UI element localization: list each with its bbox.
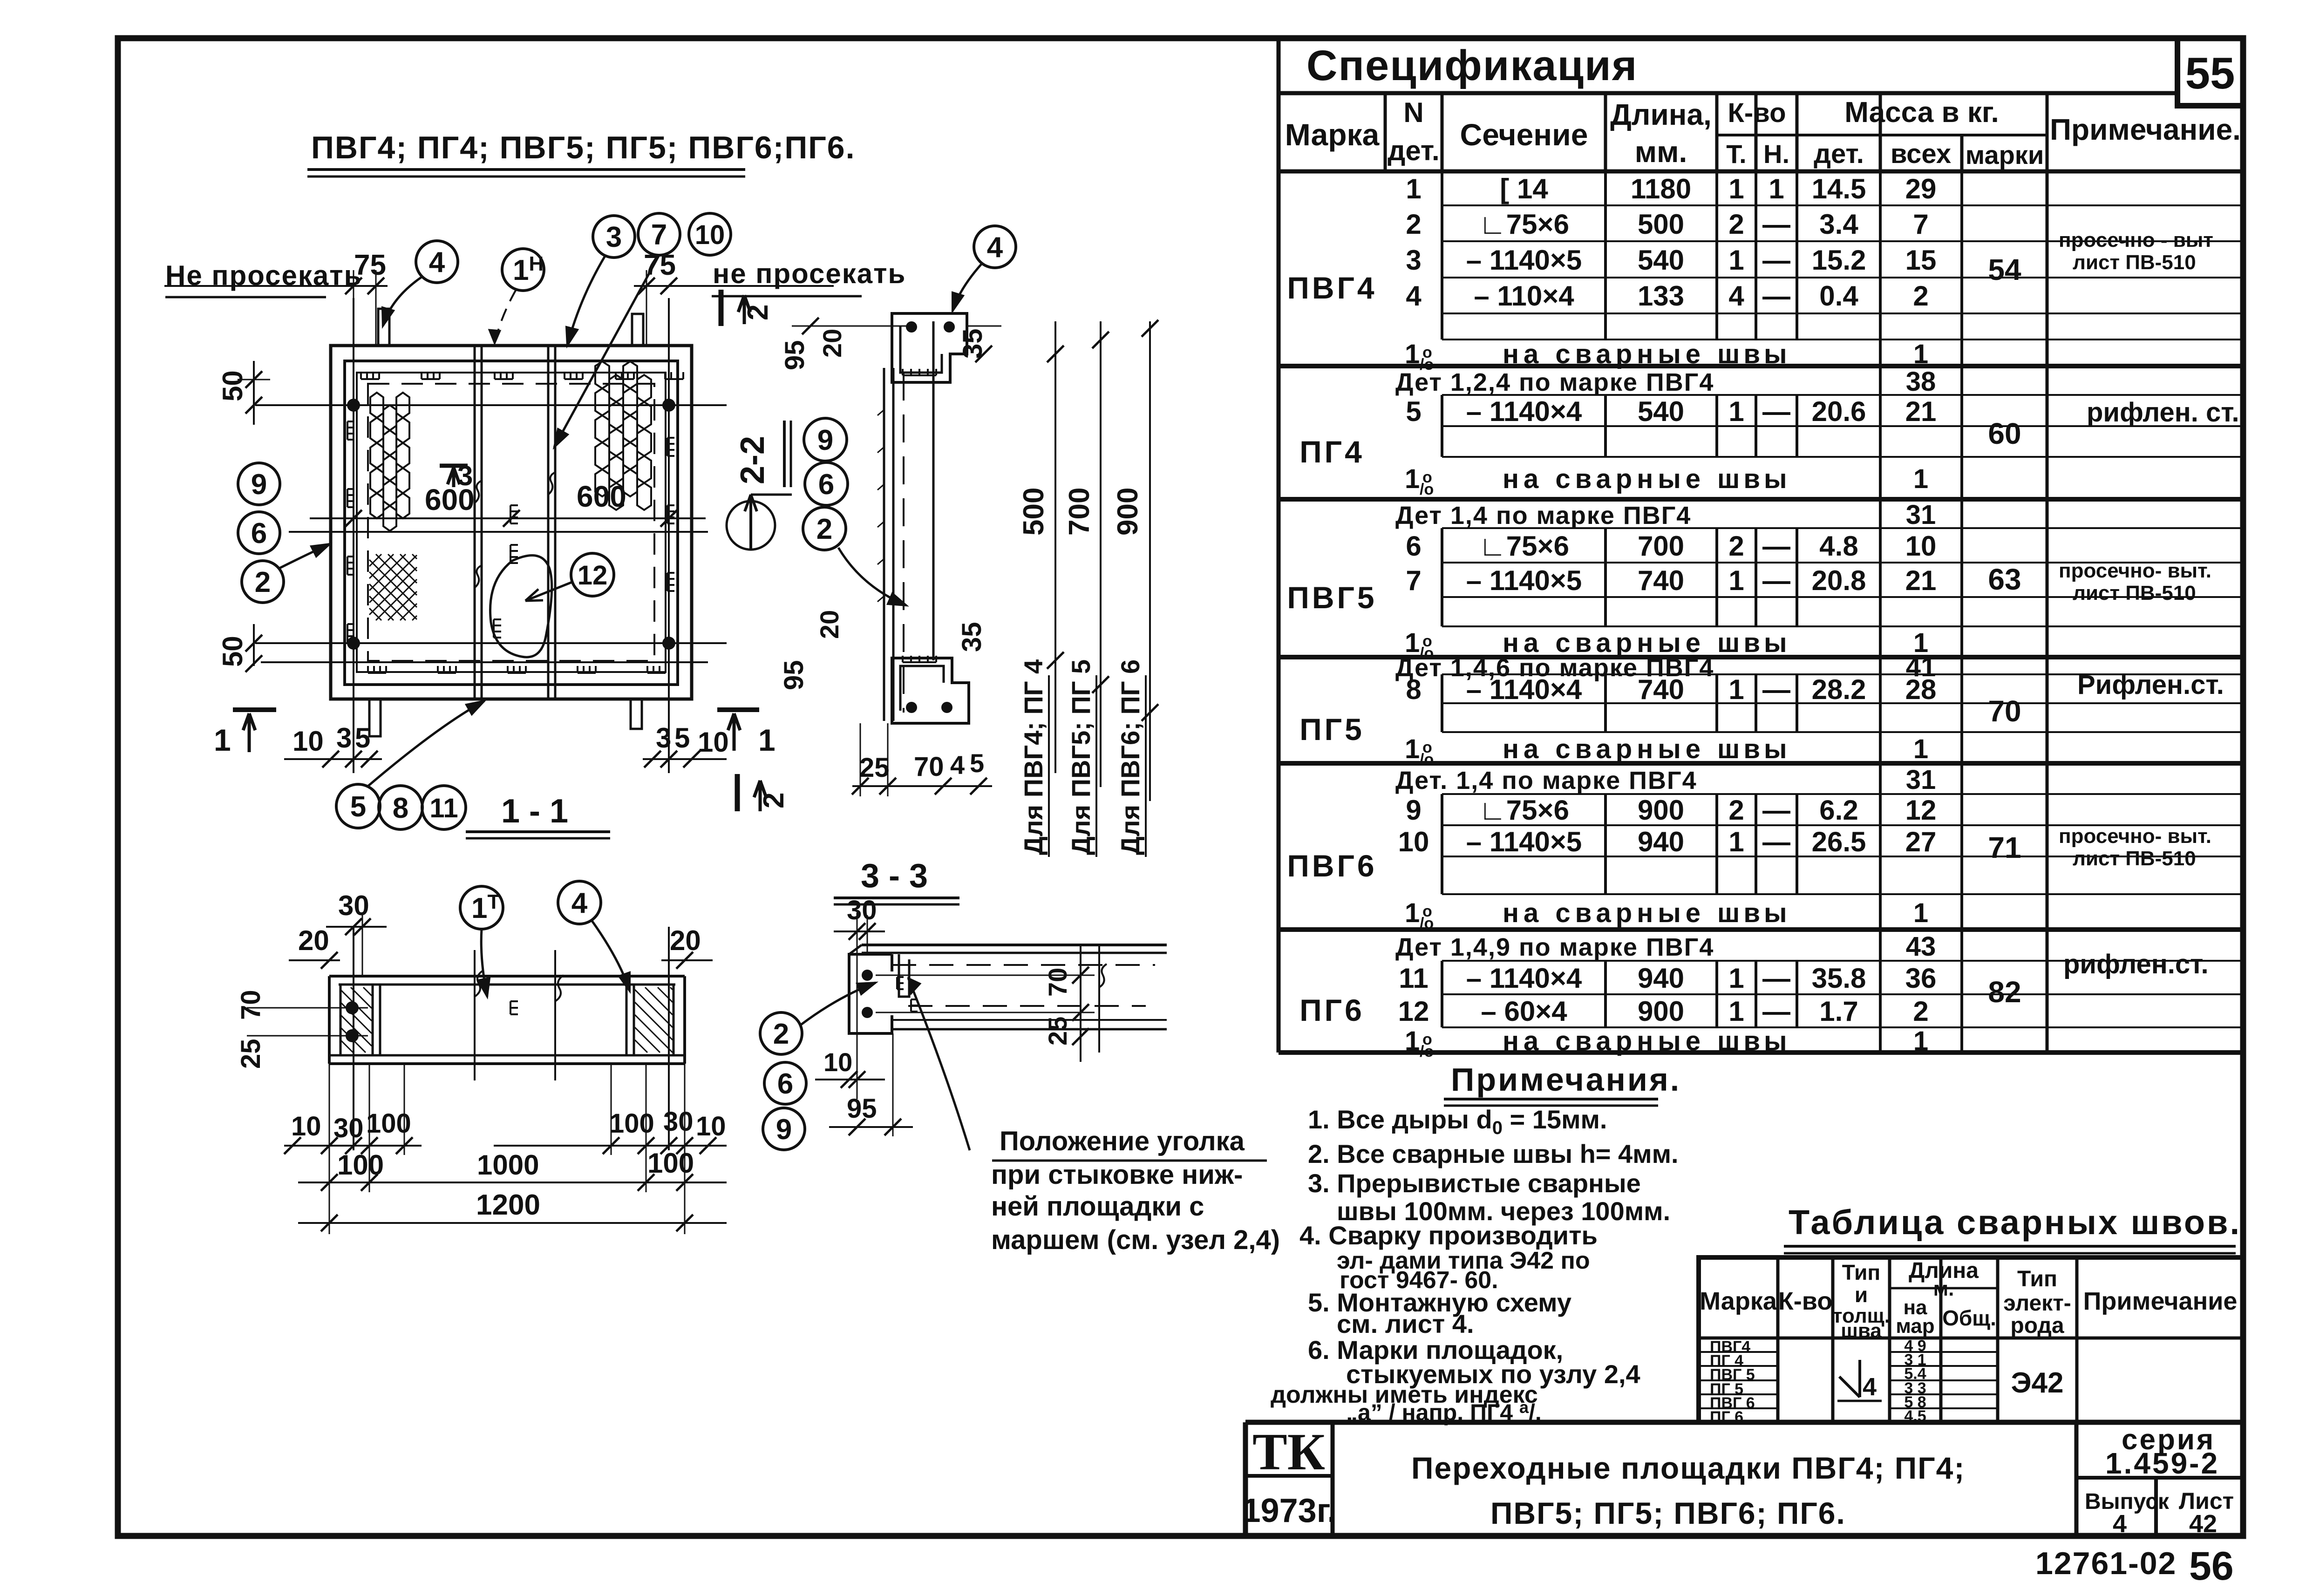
svg-text:82: 82 <box>1988 975 2021 1009</box>
svg-text:3: 3 <box>606 221 622 253</box>
svg-text:К-во: К-во <box>1728 98 1786 128</box>
svg-text:36: 36 <box>1905 963 1937 994</box>
plan gridline horizontal B <box>255 642 727 644</box>
svg-text:– 1140×5: – 1140×5 <box>1466 826 1582 857</box>
svg-text:20.6: 20.6 <box>1812 396 1866 427</box>
svg-text:2: 2 <box>1913 280 1928 312</box>
svg-text:2: 2 <box>742 305 774 320</box>
svg-text:5: 5 <box>355 722 370 754</box>
svg-text:26.5: 26.5 <box>1812 826 1866 857</box>
svg-text:ПВГ5; ПГ5; ПВГ6; ПГ6.: ПВГ5; ПГ5; ПВГ6; ПГ6. <box>1490 1496 1846 1530</box>
svg-text:50: 50 <box>217 370 248 401</box>
svg-text:Дет. 1,4 по марке ПВГ4: Дет. 1,4 по марке ПВГ4 <box>1395 767 1697 795</box>
plan break marks on stringers <box>475 481 482 503</box>
svg-text:– 1140×4: – 1140×4 <box>1466 674 1582 705</box>
svg-text:Э42: Э42 <box>2011 1367 2063 1399</box>
plan stringer 1 (double line) <box>474 346 476 699</box>
svg-text:—: — <box>1762 826 1790 857</box>
svg-text:11: 11 <box>1399 963 1428 994</box>
svg-text:Для ПВГ4; ПГ 4: Для ПВГ4; ПГ 4 <box>1019 659 1048 855</box>
svg-text:30: 30 <box>333 1113 364 1143</box>
svg-text:Переходные площадки ПВГ: Переходные площадки ПВГ4; ПГ4; <box>1411 1451 1965 1485</box>
svg-text:– 1140×4: – 1140×4 <box>1466 396 1582 427</box>
svg-text:Выпуск: Выпуск <box>2085 1489 2170 1514</box>
svg-text:900: 900 <box>1638 795 1684 826</box>
svg-text:4: 4 <box>950 750 965 780</box>
plan bottom tabs <box>369 699 381 736</box>
svg-text:1180: 1180 <box>1631 173 1691 204</box>
svg-text:1. Все дыры d0 = 1: 1. Все дыры d0 = 15мм. <box>1308 1105 1607 1138</box>
svg-text:7: 7 <box>1913 209 1928 240</box>
svg-text:30: 30 <box>338 890 369 921</box>
spec ПВГ4 прим column ruling <box>2047 205 2243 206</box>
section 3-3 callout circles 2 6 9 <box>760 1012 802 1054</box>
spec table ПГ5 block <box>1442 673 2243 675</box>
svg-text:/о: /о <box>1420 751 1434 768</box>
leader from position note to 3-3 <box>908 978 970 1150</box>
svg-text:—: — <box>1762 963 1790 994</box>
svg-text:лист ПВ-510: лист ПВ-510 <box>2073 251 2196 274</box>
leader from 3-7-10 to middle <box>554 255 659 447</box>
section 3-3 dims 70 25 <box>1080 945 1082 1062</box>
svg-text:Тип: Тип <box>1842 1260 1880 1284</box>
svg-text:– 60×4: – 60×4 <box>1481 996 1567 1027</box>
spec table ПВГ6 block <box>1442 793 2243 795</box>
hex mesh patch right <box>595 361 651 510</box>
svg-text:ТК: ТК <box>1252 1423 1325 1481</box>
svg-text:дет.: дет. <box>1388 135 1439 166</box>
weld table grid <box>1699 1257 2243 1422</box>
svg-text:Дет 1,4 по марке ПВГ4: Дет 1,4 по марке ПВГ4 <box>1395 502 1691 530</box>
svg-text:2: 2 <box>1728 795 1744 826</box>
svg-text:740: 740 <box>1638 674 1684 705</box>
svg-text:1: 1 <box>1728 963 1744 994</box>
secondary horizontal line below 600 <box>289 531 708 533</box>
svg-text:500: 500 <box>1638 209 1684 240</box>
svg-text:940: 940 <box>1638 963 1684 994</box>
svg-text:133: 133 <box>1638 280 1684 312</box>
svg-text:43: 43 <box>1906 931 1936 962</box>
svg-text:70: 70 <box>1043 968 1072 997</box>
svg-text:—: — <box>1762 280 1790 312</box>
dimension 75 left top <box>164 285 388 287</box>
svg-text:∟75×6: ∟75×6 <box>1479 795 1569 826</box>
section 1-1 callout 1T <box>460 886 503 929</box>
svg-text:3: 3 <box>1406 244 1421 276</box>
svg-text:Масса в кг.: Масса в кг. <box>1844 96 1999 129</box>
svg-text:2: 2 <box>758 793 790 808</box>
svg-text:27: 27 <box>1905 826 1937 857</box>
svg-text:ПВГ4; ПГ4; ПВГ5; ПГ5; ПВГ6;ПГ: ПВГ4; ПГ4; ПВГ5; ПГ5; ПВГ6;ПГ6. <box>311 130 855 165</box>
plan lower extension line <box>261 661 708 663</box>
section 1-1 comb middle <box>510 1001 511 1014</box>
svg-text:4: 4 <box>1863 1373 1877 1401</box>
svg-text:25: 25 <box>236 1039 266 1069</box>
svg-text:Марка: Марка <box>1700 1287 1777 1315</box>
svg-text:12761-02: 12761-02 <box>2035 1546 2177 1581</box>
svg-text:2-2: 2-2 <box>734 436 771 484</box>
svg-text:1: 1 <box>758 723 775 757</box>
section 2-2 web weld ticks <box>878 410 884 415</box>
svg-text:540: 540 <box>1638 396 1684 427</box>
svg-text:ПГ4: ПГ4 <box>1299 435 1365 469</box>
svg-text:1: 1 <box>1406 173 1421 204</box>
svg-text:Для ПВГ5; ПГ 5: Для ПВГ5; ПГ 5 <box>1066 659 1095 855</box>
svg-text:700: 700 <box>1638 530 1684 562</box>
title block frame <box>1245 1420 2243 1425</box>
svg-text:1: 1 <box>1913 734 1928 764</box>
svg-text:25: 25 <box>1043 1017 1072 1046</box>
svg-text:1.7: 1.7 <box>1819 996 1858 1027</box>
svg-text:1: 1 <box>1728 244 1744 276</box>
section cut marker 2 top <box>719 290 724 326</box>
section 3-3 combs <box>896 977 898 989</box>
svg-text:—: — <box>1762 795 1790 826</box>
section 1-1 end plates <box>328 976 331 1064</box>
spec table header band <box>1279 170 2243 174</box>
svg-text:4: 4 <box>987 231 1003 264</box>
svg-text:1: 1 <box>214 723 231 757</box>
svg-text:лист ПВ-510: лист ПВ-510 <box>2073 847 2196 870</box>
svg-text:1000: 1000 <box>477 1149 539 1181</box>
svg-text:10: 10 <box>696 1111 726 1141</box>
section 3-3 dashed flange lines <box>892 964 1155 966</box>
svg-text:6: 6 <box>251 517 267 550</box>
section cut marker 2 bottom-right <box>735 774 740 811</box>
svg-text:1: 1 <box>1405 898 1420 928</box>
svg-text:35.8: 35.8 <box>1812 963 1866 994</box>
svg-text:10: 10 <box>1905 530 1937 562</box>
callout circles 5 8 11 <box>336 784 380 828</box>
section 2-2 top channel <box>892 313 967 382</box>
svg-text:ней площадки с: ней площадки с <box>991 1191 1204 1222</box>
svg-text:10: 10 <box>291 1111 321 1141</box>
svg-text:1973г.: 1973г. <box>1242 1492 1337 1529</box>
svg-text:Дет 1,2,4 по марке ПВГ4: Дет 1,2,4 по марке ПВГ4 <box>1395 368 1714 396</box>
svg-text:N: N <box>1403 97 1423 128</box>
svg-text:– 1140×5: – 1140×5 <box>1466 244 1582 276</box>
svg-text:Положение уголка: Положение уголка <box>1000 1126 1245 1156</box>
svg-text:Н.: Н. <box>1763 139 1789 169</box>
svg-text:∟75×6: ∟75×6 <box>1479 530 1569 562</box>
svg-text:10: 10 <box>293 726 324 757</box>
svg-text:лист ПВ-510: лист ПВ-510 <box>2073 582 2196 604</box>
svg-text:ПВГ6: ПВГ6 <box>1287 849 1377 883</box>
svg-text:ПГ6: ПГ6 <box>1299 993 1365 1027</box>
svg-text:[ 14: [ 14 <box>1500 173 1548 204</box>
svg-text:Марка: Марка <box>1285 117 1380 152</box>
svg-text:31: 31 <box>1906 500 1936 530</box>
svg-text:3: 3 <box>336 722 352 754</box>
svg-text:и: и <box>1855 1283 1868 1307</box>
svg-text:Для ПВГ6; ПГ 6: Для ПВГ6; ПГ 6 <box>1116 659 1145 855</box>
svg-text:20: 20 <box>298 925 329 956</box>
svg-text:8: 8 <box>393 792 408 824</box>
series cell <box>2075 1422 2079 1536</box>
svg-text:Длина,: Длина, <box>1610 98 1712 131</box>
svg-text:4.8: 4.8 <box>1819 530 1858 562</box>
section 3-3 top plate <box>862 944 1167 946</box>
spec table ПГ6 block <box>1442 960 2243 962</box>
plan stringer 2 (double line) <box>547 346 550 699</box>
svg-text:6.2: 6.2 <box>1819 795 1858 826</box>
svg-text:Примечание: Примечание <box>2083 1287 2238 1315</box>
weld combs right edge <box>667 438 668 456</box>
svg-text:Сечение: Сечение <box>1460 117 1588 152</box>
svg-text:1: 1 <box>1405 464 1420 494</box>
svg-text:просечно- выт.: просечно- выт. <box>2059 825 2211 848</box>
svg-text:Тип: Тип <box>2017 1267 2057 1291</box>
svg-text:940: 940 <box>1638 826 1684 857</box>
svg-text:5: 5 <box>674 722 690 754</box>
svg-text:15.2: 15.2 <box>1812 244 1866 276</box>
svg-text:95: 95 <box>847 1093 877 1124</box>
section 2-2 web vertical <box>883 368 885 721</box>
weld table data rows <box>1699 1351 1778 1353</box>
section marker 1 bottom-left <box>233 707 276 712</box>
svg-text:2: 2 <box>816 513 832 545</box>
callout circles 3 7 10 <box>593 216 635 258</box>
svg-text:20: 20 <box>815 610 844 639</box>
svg-text:4: 4 <box>1728 280 1744 312</box>
svg-text:31: 31 <box>1906 765 1936 795</box>
section 3-3 lower member <box>892 1019 1167 1021</box>
spec table ПВГ5 block <box>1442 527 2243 529</box>
svg-text:3.4: 3.4 <box>1819 209 1858 240</box>
svg-text:элект-: элект- <box>2003 1291 2071 1316</box>
svg-text:швы: швы <box>1717 628 1791 658</box>
section marker 1 bottom-right <box>733 713 736 751</box>
svg-text:3: 3 <box>457 460 473 491</box>
svg-text:9: 9 <box>251 469 267 501</box>
section 1-1 bottom flange <box>329 1054 685 1057</box>
spec table ПГ4 block <box>1442 394 2243 396</box>
svg-text:10: 10 <box>1398 826 1429 857</box>
svg-text:900: 900 <box>1112 488 1144 536</box>
svg-text:5: 5 <box>970 748 984 778</box>
svg-text:70: 70 <box>1988 694 2021 728</box>
svg-text:швы: швы <box>1717 734 1791 764</box>
svg-text:600: 600 <box>577 480 626 513</box>
svg-text:дет.: дет. <box>1814 139 1864 169</box>
svg-text:—: — <box>1762 674 1790 705</box>
svg-text:12: 12 <box>1398 996 1429 1027</box>
callout circle 4 top-left <box>416 241 458 283</box>
svg-text:55: 55 <box>2185 48 2235 98</box>
svg-text:Примечание.: Примечание. <box>2050 113 2241 146</box>
svg-text:2: 2 <box>1406 209 1421 240</box>
TK logo box <box>1245 1474 1333 1478</box>
svg-text:1: 1 <box>1913 464 1928 494</box>
weld combs bottom edge <box>368 672 386 674</box>
svg-text:2: 2 <box>1728 209 1744 240</box>
spec table title row <box>1277 38 1281 1053</box>
svg-text:11: 11 <box>429 793 458 823</box>
svg-text:швы: швы <box>1717 898 1791 928</box>
svg-text:К-во: К-во <box>1778 1287 1832 1315</box>
svg-text:Таблица сварных швов.: Таблица сварных швов. <box>1789 1203 2241 1242</box>
svg-text:4: 4 <box>429 246 445 278</box>
section 2-2 view direction symbol <box>727 501 775 550</box>
weld combs middle stringer <box>510 505 511 523</box>
cross hatch patch <box>369 554 417 620</box>
svg-text:—: — <box>1762 996 1790 1027</box>
svg-text:500: 500 <box>1018 488 1050 536</box>
svg-text:м.: м. <box>1933 1277 1954 1300</box>
svg-text:не просекать: не просекать <box>713 258 906 289</box>
svg-text:Спецификация: Спецификация <box>1306 42 1638 89</box>
svg-text:30: 30 <box>663 1107 694 1137</box>
svg-text:3 - 3: 3 - 3 <box>861 857 928 895</box>
spec table ПВГ4 block <box>1441 171 1443 340</box>
svg-text:—: — <box>1762 244 1790 276</box>
svg-text:маршем (см. узел 2,4): маршем (см. узел 2,4) <box>991 1225 1280 1255</box>
svg-text:—: — <box>1762 396 1790 427</box>
svg-text:Примечания.: Примечания. <box>1451 1061 1681 1098</box>
svg-text:95: 95 <box>779 660 809 690</box>
svg-text:9: 9 <box>817 424 833 456</box>
svg-text:2: 2 <box>773 1018 789 1050</box>
svg-text:2: 2 <box>1913 996 1928 1027</box>
svg-text:6: 6 <box>1406 530 1421 562</box>
svg-text:– 1140×5: – 1140×5 <box>1466 565 1582 596</box>
plan bolt dots <box>347 399 360 412</box>
section 1-1 callout 4 <box>558 881 601 924</box>
svg-text:4: 4 <box>1406 280 1422 312</box>
svg-text:на сварные: на сварные <box>1503 464 1705 494</box>
svg-text:71: 71 <box>1988 831 2021 864</box>
svg-text:всех: всех <box>1891 139 1951 169</box>
svg-text:Т.: Т. <box>1726 139 1746 169</box>
svg-text:50: 50 <box>217 636 248 667</box>
sheet number box 55 <box>2177 38 2243 106</box>
svg-text:рифлен. ст.: рифлен. ст. <box>2087 397 2239 428</box>
svg-text:100: 100 <box>647 1148 694 1179</box>
svg-text:на сварные: на сварные <box>1503 734 1705 764</box>
section 1-1 bottom dim row 3 1200 <box>298 1222 727 1224</box>
section 1-1 gridlines <box>353 927 354 1150</box>
section 3-3 left channel box <box>849 954 892 1033</box>
plan top tabs (detail 4) <box>378 309 389 346</box>
svg-text:3. Прерывистые сварные: 3. Прерывистые сварные <box>1308 1168 1641 1198</box>
svg-text:25: 25 <box>859 753 890 783</box>
section 1-1 bottom dim row 2 <box>298 1182 727 1183</box>
svg-text:6: 6 <box>818 469 834 501</box>
svg-text:0.4: 0.4 <box>1819 280 1858 312</box>
section 1-1 stiffeners <box>372 985 374 1055</box>
section 1-1 extension verticals <box>329 1064 330 1234</box>
svg-text:20.8: 20.8 <box>1812 565 1866 596</box>
svg-text:20: 20 <box>817 329 847 358</box>
svg-text:63: 63 <box>1988 563 2021 596</box>
callout circle 12 with blob <box>571 553 614 596</box>
svg-text:95: 95 <box>780 340 810 370</box>
section 2-2 bottom channel <box>892 658 969 723</box>
section 3-3 vertical break right <box>1098 945 1100 1053</box>
section 1-1 bolt dots <box>346 1001 359 1014</box>
svg-text:ПВГ5: ПВГ5 <box>1287 580 1377 615</box>
svg-text:10: 10 <box>823 1047 852 1077</box>
svg-text:1: 1 <box>1769 173 1784 204</box>
svg-text:мар: мар <box>1896 1315 1934 1338</box>
svg-text:1.459-2: 1.459-2 <box>2105 1447 2219 1480</box>
svg-text:на сварные: на сварные <box>1503 898 1705 928</box>
svg-text:2. Все сварные швы h= 4: 2. Все сварные швы h= 4мм. <box>1308 1139 1679 1168</box>
section 1-1 break marks <box>475 950 483 1080</box>
callout circle 1H <box>502 249 544 291</box>
svg-text:—: — <box>1762 209 1790 240</box>
section 1-1 bottom dim row 1 <box>284 1145 422 1147</box>
svg-text:700: 700 <box>1063 488 1095 536</box>
svg-text:1: 1 <box>1913 898 1928 928</box>
svg-text:100: 100 <box>337 1149 384 1181</box>
svg-text:56: 56 <box>2189 1544 2234 1589</box>
svg-text:1: 1 <box>1728 996 1744 1027</box>
svg-text:/о: /о <box>1420 481 1434 498</box>
svg-text:21: 21 <box>1905 565 1937 596</box>
svg-text:ПВГ4: ПВГ4 <box>1287 271 1377 305</box>
svg-text:900: 900 <box>1638 996 1684 1027</box>
svg-text:15: 15 <box>1905 244 1937 276</box>
svg-text:Не просекать: Не просекать <box>165 260 362 291</box>
svg-text:3: 3 <box>656 722 671 754</box>
svg-text:29: 29 <box>1905 173 1937 204</box>
weld combs top edge <box>361 378 379 380</box>
svg-text:70: 70 <box>914 752 944 782</box>
svg-text:740: 740 <box>1638 565 1684 596</box>
plan inner dashed flange lines <box>357 373 666 672</box>
svg-text:28.2: 28.2 <box>1812 674 1866 705</box>
svg-text:марки: марки <box>1966 140 2044 170</box>
svg-text:– 110×4: – 110×4 <box>1474 280 1574 312</box>
dimension 75 right top <box>634 285 834 287</box>
svg-text:1: 1 <box>1405 734 1420 764</box>
svg-text:42: 42 <box>2189 1510 2217 1538</box>
svg-text:100: 100 <box>609 1108 654 1139</box>
svg-text:рода: рода <box>2010 1313 2064 1338</box>
svg-text:1: 1 <box>1728 826 1744 857</box>
plan gridline vertical right <box>668 298 670 773</box>
svg-text:при стыковке ниж-: при стыковке ниж- <box>991 1160 1243 1190</box>
svg-text:30: 30 <box>847 895 877 925</box>
svg-text:1: 1 <box>1728 565 1744 596</box>
svg-text:14.5: 14.5 <box>1812 173 1866 204</box>
section 2-2 callout circles 9 6 2 <box>804 418 847 461</box>
svg-text:1: 1 <box>1728 674 1744 705</box>
svg-text:2: 2 <box>1728 530 1744 562</box>
svg-text:просечно - выт: просечно - выт <box>2059 229 2213 251</box>
svg-text:см. лист 4.: см. лист 4. <box>1337 1309 1474 1338</box>
section 3-3 bolt dots <box>862 970 873 981</box>
svg-text:1: 1 <box>1728 396 1744 427</box>
svg-text:6: 6 <box>777 1068 793 1100</box>
svg-text:– 1140×4: – 1140×4 <box>1466 963 1582 994</box>
section cut marker 3 in plan <box>440 464 468 468</box>
svg-text:35: 35 <box>957 622 987 652</box>
svg-text:38: 38 <box>1906 367 1936 397</box>
svg-text:швы: швы <box>1717 464 1791 494</box>
hex mesh patch left <box>370 393 409 531</box>
svg-text:∟75×6: ∟75×6 <box>1479 209 1569 240</box>
svg-text:рифлен.ст.: рифлен.ст. <box>2063 949 2209 979</box>
svg-text:7: 7 <box>651 219 667 251</box>
svg-text:4: 4 <box>2113 1510 2127 1538</box>
svg-text:10: 10 <box>695 220 725 250</box>
svg-text:10: 10 <box>698 727 729 758</box>
plan gridline vertical left <box>353 298 354 773</box>
plan gridline horizontal A <box>255 404 727 406</box>
section 2-2 vertical dim lines 500 700 900 <box>1054 321 1056 773</box>
